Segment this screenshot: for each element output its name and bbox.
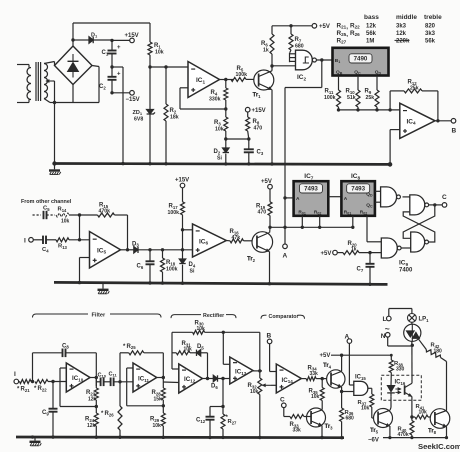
svg-text:+5V: +5V	[319, 24, 330, 30]
svg-text:220k: 220k	[396, 38, 410, 44]
svg-text:R14: R14	[58, 207, 68, 213]
svg-text:treble: treble	[424, 14, 442, 21]
svg-text:18k: 18k	[170, 115, 179, 121]
svg-text:D4: D4	[189, 262, 196, 268]
svg-text:1k: 1k	[263, 48, 269, 54]
svg-text:Tr4: Tr4	[323, 363, 332, 369]
svg-text:R17: R17	[169, 204, 179, 210]
svg-text:IC15: IC15	[355, 375, 366, 381]
svg-text:+15V: +15V	[252, 108, 266, 114]
svg-text:+15V: +15V	[175, 178, 189, 184]
svg-text:25k: 25k	[410, 85, 419, 91]
svg-text:100k: 100k	[168, 210, 180, 216]
svg-text:Tr5: Tr5	[370, 428, 379, 434]
svg-text:10k: 10k	[197, 326, 206, 332]
svg-text:R1: R1	[154, 43, 161, 49]
svg-text:33k: 33k	[293, 428, 302, 434]
svg-text:−15V: −15V	[126, 97, 140, 103]
svg-text:Tr2: Tr2	[247, 257, 256, 263]
svg-text:R8: R8	[253, 119, 260, 125]
svg-text:R11: R11	[325, 89, 334, 95]
svg-text:D1: D1	[91, 33, 98, 39]
svg-text:12k: 12k	[396, 31, 407, 37]
svg-text:C1: C1	[102, 50, 109, 56]
svg-text:470k: 470k	[398, 432, 409, 438]
svg-text:Si: Si	[217, 156, 222, 162]
svg-text:B: B	[267, 333, 272, 340]
svg-text:100k: 100k	[236, 72, 248, 78]
svg-text:Si: Si	[190, 269, 195, 275]
svg-text:10k: 10k	[215, 127, 224, 133]
svg-text:−6V: −6V	[368, 437, 379, 443]
svg-text:IC16: IC16	[395, 380, 406, 386]
svg-text:ZD1: ZD1	[133, 110, 143, 116]
svg-text:56k: 56k	[425, 38, 436, 44]
svg-text:+15V: +15V	[125, 33, 139, 39]
svg-text:C7: C7	[357, 267, 364, 273]
svg-text:7493: 7493	[304, 186, 318, 193]
svg-text:C10: C10	[98, 372, 107, 378]
svg-text:C5: C5	[43, 206, 50, 212]
svg-text:+: +	[117, 45, 121, 51]
svg-text:10k: 10k	[155, 50, 164, 56]
svg-text:R22: R22	[38, 386, 48, 392]
svg-text:47k: 47k	[232, 235, 241, 241]
svg-text:C8: C8	[62, 343, 69, 349]
svg-text:R4: R4	[211, 90, 218, 96]
svg-text:R27: R27	[228, 419, 238, 425]
svg-text:12k: 12k	[366, 23, 377, 29]
svg-text:B: B	[452, 128, 457, 135]
svg-text:+5V: +5V	[321, 251, 332, 257]
svg-text:D5: D5	[197, 344, 204, 350]
svg-text:R9: R9	[365, 89, 372, 95]
svg-text:C6: C6	[137, 264, 144, 270]
svg-text:Tr8: Tr8	[428, 429, 437, 435]
svg-text:R3: R3	[214, 120, 221, 126]
svg-text:180: 180	[434, 348, 443, 354]
svg-text:330k: 330k	[209, 97, 221, 103]
svg-text:R29: R29	[150, 417, 160, 423]
svg-text:+: +	[117, 71, 121, 77]
svg-text:A: A	[283, 253, 288, 260]
svg-text:1M: 1M	[366, 38, 374, 44]
svg-text:Comparator: Comparator	[269, 314, 299, 320]
svg-text:7490: 7490	[354, 56, 368, 63]
svg-text:Filter: Filter	[92, 313, 106, 319]
svg-text:R6: R6	[261, 41, 268, 47]
svg-text:56k: 56k	[366, 31, 377, 37]
svg-text:D2: D2	[214, 149, 221, 155]
svg-text:R25: R25	[127, 344, 137, 350]
svg-text:3k3: 3k3	[396, 23, 407, 29]
svg-text:middle: middle	[396, 14, 417, 21]
svg-text:C2: C2	[99, 84, 106, 90]
svg-text:C9: C9	[42, 410, 49, 416]
svg-text:~: ~	[385, 323, 390, 333]
svg-text:R2: R2	[170, 108, 177, 114]
svg-text:LP1: LP1	[419, 317, 430, 323]
svg-text:820: 820	[425, 23, 436, 29]
svg-text:R26: R26	[105, 411, 115, 417]
svg-text:R23: R23	[86, 390, 96, 396]
svg-text:A: A	[344, 196, 348, 202]
svg-text:470: 470	[254, 126, 263, 132]
svg-text:330: 330	[396, 367, 405, 373]
svg-text:+5V: +5V	[261, 179, 272, 185]
svg-text:15k: 15k	[154, 397, 163, 403]
svg-text:33k: 33k	[310, 371, 319, 377]
svg-text:R24: R24	[85, 417, 95, 423]
svg-text:R7: R7	[295, 37, 302, 43]
svg-text:10k: 10k	[419, 410, 428, 416]
svg-text:10k: 10k	[153, 423, 162, 429]
svg-text:C11: C11	[109, 371, 118, 377]
svg-text:10k: 10k	[311, 394, 320, 400]
svg-text:25k: 25k	[366, 95, 375, 101]
svg-text:7493: 7493	[351, 186, 365, 193]
svg-text:R13: R13	[58, 244, 68, 250]
svg-text:10k: 10k	[361, 406, 370, 412]
svg-text:100k: 100k	[324, 95, 336, 101]
svg-text:100k: 100k	[166, 267, 178, 273]
svg-text:10k: 10k	[250, 389, 259, 395]
svg-text:Tr1: Tr1	[253, 93, 262, 99]
svg-text:A: A	[296, 196, 300, 202]
svg-text:+5V: +5V	[320, 353, 331, 359]
svg-text:C12: C12	[196, 418, 206, 424]
svg-text:470k: 470k	[99, 209, 111, 215]
svg-text:D3: D3	[132, 241, 139, 247]
svg-text:R10: R10	[346, 89, 356, 95]
svg-text:R28: R28	[152, 390, 162, 396]
svg-text:470: 470	[258, 210, 267, 216]
svg-text:680: 680	[346, 416, 355, 422]
svg-text:10k: 10k	[184, 347, 193, 353]
svg-text:I: I	[14, 371, 16, 378]
svg-text:SeekIC.com: SeekIC.com	[418, 442, 460, 451]
svg-text:R18: R18	[166, 260, 176, 266]
svg-text:R21: R21	[21, 387, 31, 393]
svg-text:C: C	[442, 194, 447, 201]
svg-text:7400: 7400	[399, 268, 413, 274]
svg-text:D6: D6	[211, 384, 218, 390]
svg-text:10k: 10k	[61, 219, 70, 225]
svg-text:C: C	[280, 397, 285, 404]
svg-text:C3: C3	[257, 150, 264, 156]
svg-text:From other channel: From other channel	[21, 199, 72, 205]
svg-text:bass: bass	[364, 14, 379, 21]
svg-text:680: 680	[295, 44, 304, 50]
svg-text:L: L	[383, 316, 387, 323]
svg-text:1k: 1k	[351, 247, 357, 253]
svg-text:12k: 12k	[88, 397, 97, 403]
svg-text:6V8: 6V8	[134, 117, 143, 123]
svg-text:12k: 12k	[87, 423, 96, 429]
svg-text:3k3: 3k3	[425, 31, 436, 37]
svg-text:C4: C4	[42, 247, 49, 253]
svg-text:Tr3: Tr3	[325, 424, 334, 430]
svg-text:Rectifier: Rectifier	[203, 313, 224, 319]
svg-text:I: I	[24, 237, 26, 244]
svg-text:51k: 51k	[347, 95, 356, 101]
